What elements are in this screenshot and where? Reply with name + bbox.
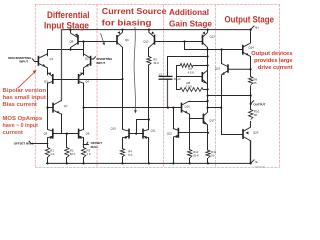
svg-text:Input Stage: Input Stage xyxy=(44,21,89,31)
wire Q5-Q6 base xyxy=(53,133,79,135)
wire Q11 collector xyxy=(148,120,150,130)
wire R1 bottom xyxy=(47,158,49,164)
wire Q15 base to output column xyxy=(228,68,251,70)
wire Q10-Q11 base xyxy=(130,133,144,135)
svg-text:25: 25 xyxy=(254,81,258,85)
wire R7 left lead xyxy=(177,65,181,67)
transistor Q15 xyxy=(222,64,229,76)
transistor Q6 xyxy=(79,129,84,139)
svg-text:Q9: Q9 xyxy=(125,38,129,42)
svg-text:Differential: Differential xyxy=(47,9,90,20)
svg-text:Q2: Q2 xyxy=(85,57,89,61)
wire first-stage output xyxy=(84,107,182,109)
resistor R2 xyxy=(65,148,69,158)
wire Q20 base horizontal xyxy=(222,134,244,136)
terminal tick V+ xyxy=(251,26,255,30)
svg-text:MOS OpAmps: MOS OpAmps xyxy=(3,116,43,122)
resistor R11 xyxy=(206,150,210,158)
wire Q11 emitter xyxy=(148,138,150,164)
terminal tick non-inverting input xyxy=(32,59,38,62)
wire Q11 diode loop xyxy=(137,120,149,134)
stage box dashed border left xyxy=(34,5,36,168)
svg-text:has small input: has small input xyxy=(3,95,47,101)
resistor R3 xyxy=(81,148,85,158)
wire Q17 emitter down xyxy=(207,125,209,150)
wire C1 bottom down xyxy=(167,79,169,107)
wire Q15 emitter down xyxy=(189,114,191,149)
wire V- rail xyxy=(47,162,251,164)
svg-text:Q17: Q17 xyxy=(209,119,215,123)
svg-text:Bipolar version: Bipolar version xyxy=(3,88,47,94)
wire R10 to Q20 xyxy=(250,122,252,128)
wire bias node to Q20 base column xyxy=(208,107,222,109)
annotation arrow black curved short xyxy=(101,33,105,45)
svg-text:39 K: 39 K xyxy=(153,61,159,65)
wire Q15 emitter to Q17 base xyxy=(190,118,204,120)
resistor R7 xyxy=(180,63,193,67)
wire R7 right lead xyxy=(193,65,208,67)
wire R5 column xyxy=(148,48,150,120)
wire Q22 collector vertical xyxy=(173,108,175,129)
wire offset null left xyxy=(29,141,47,143)
svg-text:NULL: NULL xyxy=(91,145,99,149)
wire Q1 collector xyxy=(47,50,49,56)
transistor Q5 xyxy=(48,129,53,139)
annotation text MOS xyxy=(3,116,43,136)
svg-text:(optional): (optional) xyxy=(255,165,265,168)
svg-text:Q1: Q1 xyxy=(50,57,54,61)
transistor Q15 xyxy=(182,101,190,114)
svg-text:INPUT: INPUT xyxy=(97,61,106,65)
wire Q9 collector / node B vertical xyxy=(122,48,124,130)
wire V+ rail xyxy=(62,29,251,31)
svg-text:Q11: Q11 xyxy=(151,129,157,133)
svg-text:Q15: Q15 xyxy=(215,66,221,70)
wire Q13 collector vertical xyxy=(207,48,209,112)
svg-text:INPUT: INPUT xyxy=(20,59,29,63)
resistor R10 xyxy=(249,110,253,120)
transistor Q10 xyxy=(123,129,130,139)
svg-text:Current Source: Current Source xyxy=(102,7,168,16)
svg-text:Output devices: Output devices xyxy=(251,51,292,57)
svg-text:Q10: Q10 xyxy=(111,127,117,131)
transistor Q8 xyxy=(71,30,79,50)
transistor Q14 xyxy=(243,43,251,57)
wire node A horizontal xyxy=(48,49,84,51)
resistor R8 xyxy=(180,88,203,92)
wire Q6 emitter to R3 xyxy=(83,138,85,148)
transistor Q17 xyxy=(203,112,208,126)
wire bias top xyxy=(168,57,208,77)
svg-text:Q16: Q16 xyxy=(185,104,191,108)
svg-text:4.5 K: 4.5 K xyxy=(188,71,195,75)
wire Q12 base to Q13 base xyxy=(155,41,203,43)
resistor R9 xyxy=(249,77,253,86)
transistor Q20 xyxy=(243,127,251,141)
transistor Q22 xyxy=(173,128,178,138)
wire Q5 emitter to R1 xyxy=(47,138,49,148)
terminal labels xyxy=(8,26,265,164)
wire Q13 collector to Q14 base xyxy=(185,49,243,51)
wire Q2 collector xyxy=(83,42,85,56)
svg-text:Q20: Q20 xyxy=(253,131,259,135)
terminal tick inverting input xyxy=(91,57,96,59)
svg-text:1 K: 1 K xyxy=(50,152,54,156)
svg-text:Q5: Q5 xyxy=(44,132,48,136)
svg-text:5 K: 5 K xyxy=(128,153,132,157)
svg-text:30 pF: 30 pF xyxy=(174,77,181,81)
wire Q3 collector down xyxy=(47,83,49,129)
svg-text:Q22: Q22 xyxy=(167,132,173,136)
wire Q2 emitter to Q4 xyxy=(83,70,85,75)
svg-text:V+: V+ xyxy=(255,26,259,30)
transistor Q11 xyxy=(143,129,149,139)
wire Q15 collector horizontal xyxy=(190,101,208,103)
wire Q10 emitter to R4 xyxy=(122,138,124,149)
wire R3 bottom xyxy=(83,158,85,164)
svg-text:Q6: Q6 xyxy=(86,132,90,136)
svg-text:50 K: 50 K xyxy=(193,153,199,157)
wire R2 top xyxy=(66,134,68,148)
transistor Q7 xyxy=(53,100,62,114)
svg-text:7.5 K: 7.5 K xyxy=(186,85,193,89)
transistor Q12 xyxy=(149,30,155,48)
transistor Q3 xyxy=(48,70,53,87)
resistor R1 xyxy=(45,148,49,158)
stage label Differential Input Stage xyxy=(44,9,90,31)
wire Q22 base xyxy=(179,132,208,134)
wire Q3-Q4 base / node B xyxy=(53,79,123,81)
svg-text:Q14: Q14 xyxy=(249,46,255,50)
annotation arrow black curved long xyxy=(134,27,137,114)
stage label Additional Gain Stage xyxy=(169,7,213,28)
svg-text:Q8: Q8 xyxy=(70,40,74,44)
wire R8 left lead xyxy=(177,89,181,91)
wire Q7 base xyxy=(48,107,54,109)
stage label Output Stage xyxy=(225,14,275,24)
stage box dashed border bottom xyxy=(35,167,279,169)
terminal tick output xyxy=(251,101,254,104)
stage boundary dashed line 2 xyxy=(163,5,165,168)
wire R12 bottom xyxy=(189,159,191,164)
stage label Current Source for biasing xyxy=(102,7,168,27)
svg-text:50 K: 50 K xyxy=(70,152,76,156)
svg-text:current: current xyxy=(3,130,24,136)
svg-text:50: 50 xyxy=(211,153,215,157)
transistor Q9 xyxy=(117,30,123,47)
svg-text:Q12: Q12 xyxy=(143,40,149,44)
wire R11 bottom xyxy=(207,159,209,164)
stage boundary dashed line 1 xyxy=(96,5,98,168)
svg-text:Q4: Q4 xyxy=(85,80,89,84)
svg-text:Q13: Q13 xyxy=(210,35,216,39)
wire R2 bottom xyxy=(66,158,68,164)
wire Q8-Q9 base xyxy=(78,41,116,43)
wire R9 to output node xyxy=(250,86,252,110)
terminal tick V- xyxy=(251,160,255,164)
wire Q13 base loop vertical xyxy=(184,42,186,50)
wire Q14 collector to rail xyxy=(250,30,252,43)
svg-text:Additional: Additional xyxy=(169,7,209,17)
resistor R12 xyxy=(188,150,192,158)
wire VBE multiplier left vertical xyxy=(176,66,178,90)
svg-text:provides large: provides large xyxy=(254,58,293,64)
annotation text bipolar xyxy=(3,88,47,108)
wire Q14 emitter to R9 xyxy=(250,57,252,77)
wire Q20 base vertical xyxy=(221,50,223,64)
svg-text:for biasing: for biasing xyxy=(102,18,152,27)
capacitor C1 xyxy=(159,76,173,79)
svg-text:OFFSET NULL: OFFSET NULL xyxy=(14,141,34,145)
svg-text:50: 50 xyxy=(254,113,258,117)
wire Q1 emitter to Q3 xyxy=(47,70,49,75)
wire R4 bottom xyxy=(122,157,124,164)
wire bias to output column xyxy=(208,95,251,97)
svg-text:C1: C1 xyxy=(159,72,163,76)
wire Q4 collector down xyxy=(83,83,85,129)
wire Q7 collector vertical xyxy=(61,30,63,101)
stage box dashed border right xyxy=(279,5,281,168)
wire Q22 emitter down xyxy=(173,137,175,163)
svg-text:V-: V- xyxy=(255,160,258,164)
svg-text:have ~ 0 input: have ~ 0 input xyxy=(3,123,39,129)
wire Q15 emitter down xyxy=(221,75,223,134)
transistor Q1 xyxy=(38,50,47,71)
svg-text:Bias current: Bias current xyxy=(3,102,38,108)
svg-text:Q7: Q7 xyxy=(64,104,68,108)
transistor Q4 xyxy=(79,70,84,87)
annotation text output devices xyxy=(251,51,292,71)
component reference labels xyxy=(44,35,260,158)
wire Q20 collector to V- xyxy=(250,141,252,164)
wire R8 right lead xyxy=(203,89,207,91)
wire Q7 emitter down xyxy=(61,114,63,133)
annotation arrow red xyxy=(18,70,37,88)
resistor R5 xyxy=(147,57,151,65)
svg-text:1 K: 1 K xyxy=(87,152,91,156)
svg-text:Output Stage: Output Stage xyxy=(225,14,275,24)
transistor Q13 xyxy=(202,30,207,48)
transistor Q2 xyxy=(84,50,91,71)
stage box dashed border top xyxy=(35,4,279,6)
svg-text:Gain Stage: Gain Stage xyxy=(169,19,213,28)
transistor Q16 xyxy=(202,70,207,84)
wire offset null right xyxy=(84,142,89,144)
stage boundary dashed line 3 xyxy=(215,5,217,168)
svg-text:Q3: Q3 xyxy=(44,80,48,84)
svg-text:OUTPUT: OUTPUT xyxy=(254,103,266,107)
resistor R4 xyxy=(120,149,124,157)
wire Q16 base xyxy=(177,76,203,78)
svg-text:drive current: drive current xyxy=(258,65,293,71)
